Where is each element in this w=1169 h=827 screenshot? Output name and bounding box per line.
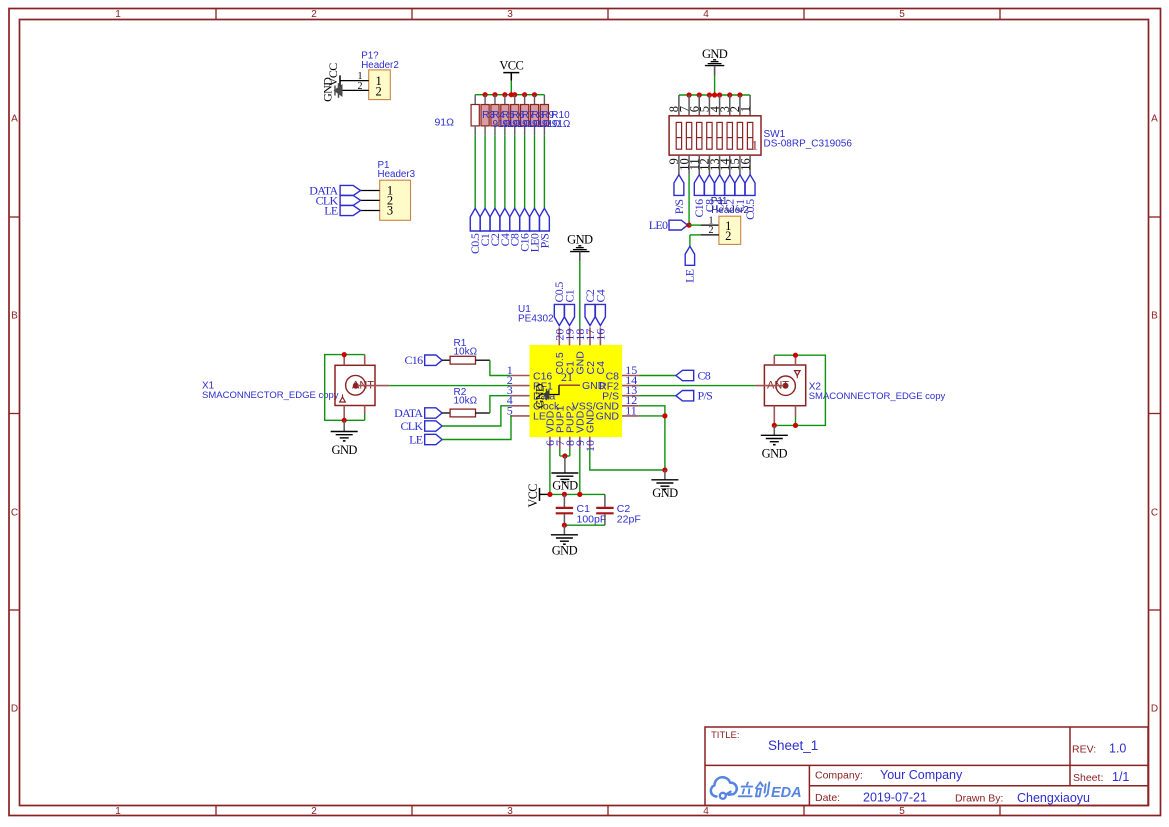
net port C1 (above U1) (562, 289, 576, 325)
svg-text:Chengxiaoyu: Chengxiaoyu (1017, 791, 1090, 805)
svg-text:Header2: Header2 (711, 205, 749, 216)
svg-text:EDA: EDA (771, 785, 802, 801)
svg-text:C16: C16 (404, 353, 423, 367)
wire R7 to net port (514, 135, 516, 208)
svg-text:P/S: P/S (537, 234, 551, 249)
junction (X1 bottom) (342, 418, 347, 423)
svg-text:LE: LE (409, 433, 423, 447)
wire pin10 to right ground (590, 449, 665, 471)
junction (X2 bottom left) (772, 423, 777, 428)
wire R9 to net port (534, 135, 536, 208)
wire CLK to U1 pin4 (442, 406, 510, 426)
svg-text:P/S: P/S (672, 200, 686, 215)
connector X2 SMACONNECTOR_EDGE copy (756, 355, 946, 425)
net port LE0 (resistor bank) (527, 208, 541, 252)
svg-text:C4: C4 (595, 361, 607, 375)
svg-text:GND: GND (552, 479, 578, 493)
resistor R9 (530, 95, 538, 136)
svg-text:GND: GND (585, 409, 597, 433)
wire header3 pin3 (361, 210, 380, 212)
net port C2 (SW1 pin 14) (723, 175, 737, 213)
svg-text:11: 11 (625, 403, 637, 417)
junction dots on VCC rail (482, 92, 537, 97)
svg-text:CLK: CLK (400, 419, 423, 433)
wire R3 to net port (474, 135, 476, 208)
svg-text:21: 21 (561, 370, 573, 384)
net port C4 (resistor bank) (498, 208, 512, 246)
resistor R5 (491, 95, 499, 136)
svg-text:TITLE:: TITLE: (711, 730, 740, 741)
switch SW1 DS-08RP_C319056 (667, 95, 852, 175)
junction dots on SW1 rail (686, 92, 742, 97)
wire X1 ground loop (325, 355, 365, 421)
wire VCC rail (475, 94, 544, 96)
svg-text:P/S: P/S (698, 389, 713, 403)
IC U1 PE4302 (507, 304, 639, 452)
net port C0.5 (SW1 pin 16) (743, 175, 757, 220)
net port LE (header) (324, 204, 360, 218)
svg-text:GND: GND (596, 411, 620, 423)
wire R10 to net port (543, 135, 545, 208)
wire GND to SW1 rail (714, 76, 716, 96)
svg-text:Sheet:: Sheet: (1073, 772, 1103, 784)
svg-text:4: 4 (703, 806, 709, 817)
capacitor C1 100pF (556, 494, 607, 525)
svg-text:1: 1 (752, 137, 759, 152)
junction (right ground node) (662, 467, 667, 472)
svg-text:Header3: Header3 (378, 169, 416, 180)
net port C16 (resistor bank) (518, 208, 532, 251)
wire SW1 top rail (679, 94, 750, 96)
svg-text:D: D (11, 704, 18, 715)
wire U1 pin13 to P/S (639, 395, 676, 397)
wire VCC to rail (510, 81, 512, 95)
svg-text:C: C (11, 508, 18, 519)
svg-text:2: 2 (725, 229, 731, 243)
svg-text:Sheet_1: Sheet_1 (768, 738, 818, 753)
ground GND (right of U1) (651, 470, 678, 500)
net port C1 (SW1 pin 15) (733, 175, 747, 213)
svg-text:LE: LE (683, 269, 697, 283)
net port C8 (676, 369, 711, 383)
wire P11 pin2 to LE (690, 235, 719, 246)
svg-text:REV:: REV: (1072, 744, 1096, 756)
svg-text:VCC: VCC (526, 484, 540, 508)
EasyEDA logo (711, 777, 802, 801)
ground GND (X1) (331, 420, 358, 457)
net port P/S (676, 389, 712, 403)
svg-text:B: B (11, 311, 18, 322)
wire GND to pin 18 (579, 261, 581, 327)
svg-text:16: 16 (593, 329, 607, 341)
net port LE (below P11) (683, 246, 697, 283)
svg-text:DS-08RP_C319056: DS-08RP_C319056 (764, 139, 853, 150)
wire P1? pin1 (340, 80, 369, 82)
wire SW1 pin10 down to LE0 node (688, 175, 690, 225)
wire pin12 / pin11 to ground net (639, 406, 665, 470)
svg-text:SMACONNECTOR_EDGE copy: SMACONNECTOR_EDGE copy (202, 390, 339, 401)
connector X1 SMACONNECTOR_EDGE copy (202, 355, 389, 421)
svg-text:SMACONNECTOR_EDGE copy: SMACONNECTOR_EDGE copy (809, 391, 946, 402)
junction (X2 top) (793, 353, 798, 358)
net port LE (left of U1) (409, 433, 442, 447)
junction (X1 top) (342, 352, 347, 357)
wire R6 to net port (504, 135, 506, 208)
net port P/S (SW1 pin 9) (672, 175, 686, 214)
wire header3 pin2 (361, 199, 380, 201)
ground GND (pins 7/8) (551, 456, 578, 493)
svg-text:GND: GND (321, 77, 335, 102)
wire C1/C2 bottoms (564, 524, 605, 526)
svg-text:5: 5 (899, 806, 905, 817)
connector P1 Header3 (378, 160, 416, 220)
svg-text:A: A (1151, 114, 1158, 125)
svg-text:A: A (11, 114, 18, 125)
net port C16 (SW1 pin 11) (692, 175, 706, 218)
resistor bank value/ref labels (434, 110, 570, 130)
net port C4 (SW1 pin 13) (712, 175, 726, 213)
svg-text:LE: LE (324, 204, 338, 218)
net port LE0 (649, 218, 688, 232)
svg-text:C8: C8 (698, 369, 711, 383)
net port C2 (resistor bank) (488, 208, 502, 246)
ground GND (above U1 pin 18) (567, 232, 593, 261)
svg-text:2: 2 (375, 85, 381, 99)
svg-text:3: 3 (387, 204, 393, 218)
svg-text:2: 2 (311, 9, 317, 20)
net port CLK (header) (316, 194, 361, 208)
svg-text:C4: C4 (593, 289, 607, 302)
svg-text:1.0: 1.0 (1109, 742, 1126, 756)
wire U1 pin14 (RF2) to X2 (639, 385, 756, 387)
svg-text:2: 2 (311, 806, 317, 817)
junction dots on decoupling rail (547, 492, 582, 497)
svg-text:16: 16 (738, 158, 752, 171)
wire LE0 to P11 pin1 (689, 224, 701, 226)
svg-text:PE4302: PE4302 (518, 314, 554, 325)
svg-text:GND: GND (652, 486, 678, 500)
wire R5 to net port (494, 135, 496, 208)
svg-text:C: C (1151, 508, 1158, 519)
svg-text:Your Company: Your Company (880, 768, 963, 782)
net port P/S (resistor bank) (537, 208, 551, 248)
ground GND (X2) (761, 425, 788, 460)
net port C0.5 (above U1) (552, 282, 566, 326)
junction node LE0 (686, 223, 691, 228)
svg-text:1: 1 (115, 9, 121, 20)
net port C4 (above U1) (593, 289, 607, 325)
net port C8 (resistor bank) (508, 208, 522, 246)
svg-text:GND: GND (762, 446, 788, 460)
resistor R7 (511, 95, 519, 136)
wire U1 pin2 (RF1) to X1 (389, 385, 510, 387)
svg-text:4: 4 (703, 9, 709, 20)
junction (pin 11) (662, 413, 667, 418)
ground GND (above SW1) (702, 47, 728, 76)
net port DATA (header) (309, 184, 360, 198)
wire P1? pin2 (341, 89, 369, 91)
resistor R10 (540, 95, 548, 136)
title block (705, 727, 1148, 806)
svg-text:Date:: Date: (815, 792, 840, 804)
svg-text:DATA: DATA (394, 406, 423, 420)
junction (X2 bottom mid) (793, 423, 798, 428)
wire R2 to U1 pin3 (490, 396, 510, 413)
connector P11 Header2 (709, 196, 749, 245)
svg-text:1: 1 (738, 106, 752, 112)
wire R4 to net port (484, 135, 486, 208)
svg-text:B: B (1151, 311, 1158, 322)
internal ground flag (pin 21) (533, 383, 560, 408)
net port C2 (above U1) (583, 289, 597, 325)
connector P1? Header2 (358, 51, 399, 100)
svg-text:Drawn By:: Drawn By: (955, 793, 1003, 805)
svg-text:GND: GND (702, 47, 728, 61)
svg-text:10kΩ: 10kΩ (454, 395, 478, 406)
resistor R4 (481, 95, 489, 136)
resistor R2 10k (442, 387, 490, 417)
power flag VCC (resistor bank) (499, 58, 523, 80)
net port C1 (resistor bank) (478, 208, 492, 246)
svg-text:5: 5 (899, 9, 905, 20)
ground GND (below C1) (551, 525, 578, 557)
power flag VCC (decoupling rail) (526, 484, 550, 508)
wire X2 ground loop (774, 355, 825, 425)
svg-text:GND: GND (552, 544, 578, 558)
svg-text:3: 3 (507, 9, 513, 20)
svg-text:GND: GND (533, 383, 547, 408)
wire LE to U1 pin5 (442, 416, 511, 440)
wire R1 to U1 pin1 (490, 360, 510, 375)
resistor R8 (521, 95, 529, 136)
svg-text:GND: GND (567, 232, 593, 246)
svg-text:91Ω: 91Ω (552, 119, 571, 130)
net port C8 (SW1 pin 12) (702, 175, 716, 213)
wire pins 7,8 to ground (560, 449, 570, 457)
wire U1 pin15 to C8 (639, 375, 676, 377)
wire header3 pin1 (361, 190, 380, 192)
svg-text:VCC: VCC (499, 58, 523, 72)
junction (C1 bottom) (562, 523, 567, 528)
svg-text:LE0: LE0 (649, 218, 668, 232)
resistor R1 10k (442, 338, 490, 364)
svg-text:C1: C1 (562, 289, 576, 302)
net port CLK (left of U1) (400, 419, 442, 433)
resistor R6 (501, 95, 509, 136)
wire R8 to net port (524, 135, 526, 208)
junction (pins 7/8) (562, 453, 567, 458)
svg-text:Company:: Company: (815, 770, 863, 782)
ground flag GND at P1? pin2 (321, 77, 343, 102)
power flag VCC at P1? pin1 (326, 63, 340, 86)
svg-text:22pF: 22pF (617, 513, 641, 525)
svg-text:D: D (1151, 704, 1158, 715)
capacitor C2 22pF (596, 494, 641, 525)
svg-text:1: 1 (115, 806, 121, 817)
svg-text:2019-07-21: 2019-07-21 (863, 791, 927, 805)
svg-text:1/1: 1/1 (1112, 770, 1129, 784)
resistor R3 (471, 95, 479, 136)
svg-text:91Ω: 91Ω (434, 116, 454, 128)
svg-text:GND: GND (582, 380, 606, 392)
svg-text:3: 3 (507, 806, 513, 817)
net port C0.5 (resistor bank) (468, 208, 482, 254)
svg-text:GND: GND (332, 443, 358, 457)
net port DATA (left of U1) (394, 406, 442, 420)
svg-text:100pF: 100pF (577, 513, 607, 525)
net port C16 (left of U1) (404, 353, 442, 367)
wire VCC rail below U1 (550, 449, 605, 495)
svg-text:Header2: Header2 (361, 60, 399, 71)
